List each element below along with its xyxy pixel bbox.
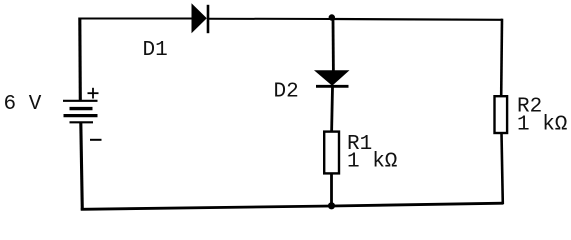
svg-text:D1: D1	[143, 39, 168, 62]
wire: R1 bottom to node B	[330, 173, 333, 207]
diode D2 cathode bar	[316, 85, 349, 88]
svg-text:D2: D2	[274, 81, 299, 104]
diode D1 cathode bar	[207, 5, 210, 33]
wire: left vertical, top-left corner down to battery + plate	[78, 18, 82, 102]
wire: node B to bottom-right corner	[332, 203, 504, 206]
battery - sign	[90, 139, 102, 141]
wire top: battery + up to top-left corner and across to D1 anode	[80, 18, 194, 20]
wire: R2 bottom to bottom-right corner	[502, 133, 503, 204]
wire: battery - plate down to bottom-left corner	[81, 123, 83, 211]
wire: bottom rail, left corner to node B	[81, 206, 332, 209]
svg-text:6 V: 6 V	[4, 93, 42, 116]
node B junction dot	[328, 202, 335, 209]
resistor R2 body	[495, 96, 508, 133]
wire: node A down to D2 anode	[332, 19, 335, 72]
battery V1 6V: plate 1 (long +)	[63, 100, 98, 102]
wire: D1 cathode to node A	[208, 18, 332, 20]
node A junction dot	[329, 14, 335, 20]
diode D2 (vertical, pointing down): triangle	[314, 70, 350, 86]
battery + sign	[88, 88, 99, 99]
resistor R1 body	[324, 132, 339, 174]
diode D1 (horizontal, anode left): triangle	[192, 3, 207, 33]
battery plate 3 (long +)	[64, 114, 98, 117]
svg-text:1 kΩ: 1 kΩ	[347, 150, 397, 173]
battery plate 4 (short -)	[70, 121, 94, 123]
svg-text:1 kΩ: 1 kΩ	[517, 114, 567, 137]
battery plate 2 (short -)	[70, 107, 93, 110]
wire: right vertical, top-right corner down to R2	[500, 19, 503, 96]
wire: node A to top-right corner	[332, 18, 503, 21]
wire: D2 cathode down to R1 top	[330, 87, 334, 132]
